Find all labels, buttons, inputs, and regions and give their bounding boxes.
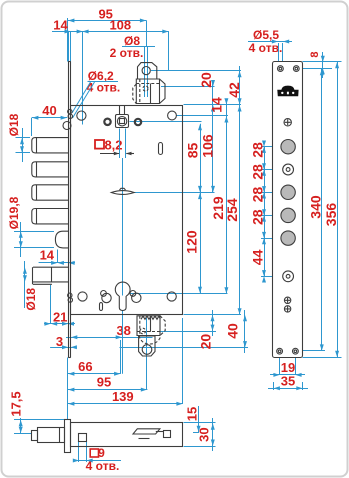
svg-text:38: 38 xyxy=(116,323,130,338)
svg-text:20: 20 xyxy=(198,72,214,88)
svg-text:17,5: 17,5 xyxy=(9,391,24,416)
svg-text:4 отв.: 4 отв. xyxy=(86,459,120,473)
svg-text:14: 14 xyxy=(209,97,225,113)
svg-text:139: 139 xyxy=(112,389,134,404)
svg-text:21: 21 xyxy=(53,310,67,325)
svg-text:Ø18: Ø18 xyxy=(24,288,38,311)
svg-text:356: 356 xyxy=(323,203,339,227)
svg-text:108: 108 xyxy=(109,18,131,33)
svg-text:40: 40 xyxy=(42,103,56,118)
svg-text:85: 85 xyxy=(185,143,201,159)
svg-text:28: 28 xyxy=(250,187,266,203)
svg-text:28: 28 xyxy=(250,142,266,158)
svg-text:4 отв.: 4 отв. xyxy=(249,41,283,55)
svg-text:30: 30 xyxy=(197,427,212,441)
svg-text:42: 42 xyxy=(226,82,242,98)
svg-text:20: 20 xyxy=(198,334,214,350)
svg-text:2 отв.: 2 отв. xyxy=(110,46,144,60)
svg-text:14: 14 xyxy=(53,18,68,33)
svg-text:Ø18: Ø18 xyxy=(7,113,21,136)
svg-text:95: 95 xyxy=(97,375,111,390)
svg-text:106: 106 xyxy=(200,134,216,158)
svg-text:254: 254 xyxy=(224,198,240,222)
svg-text:340: 340 xyxy=(308,195,324,219)
svg-text:66: 66 xyxy=(78,359,92,374)
svg-text:15: 15 xyxy=(185,407,200,421)
svg-text:8: 8 xyxy=(309,51,321,57)
svg-text:9: 9 xyxy=(98,446,105,460)
svg-text:28: 28 xyxy=(250,209,266,225)
svg-text:28: 28 xyxy=(250,164,266,180)
svg-text:Ø19,8: Ø19,8 xyxy=(7,196,21,229)
svg-text:35: 35 xyxy=(281,374,295,389)
svg-text:Ø5,5: Ø5,5 xyxy=(253,28,279,42)
svg-text:120: 120 xyxy=(184,230,200,254)
svg-text:44: 44 xyxy=(250,249,266,265)
svg-text:40: 40 xyxy=(225,323,241,339)
svg-text:3: 3 xyxy=(56,334,63,349)
svg-text:14: 14 xyxy=(40,248,55,263)
